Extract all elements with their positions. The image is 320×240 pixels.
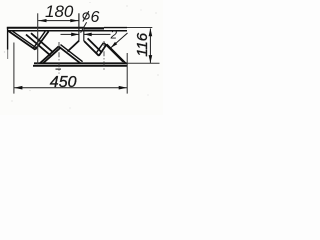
svg-text:450: 450: [50, 74, 77, 91]
svg-text:6: 6: [91, 9, 100, 26]
svg-text:116: 116: [134, 32, 151, 57]
svg-text:2: 2: [110, 29, 118, 41]
svg-text:180: 180: [45, 2, 74, 21]
